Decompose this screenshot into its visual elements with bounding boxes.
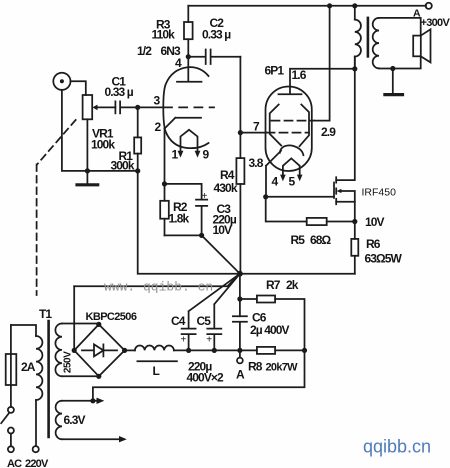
svg-text:KBPC2506: KBPC2506 (86, 311, 137, 323)
node star ground (237, 271, 243, 277)
svg-text:AC: AC (7, 458, 22, 468)
tube V2 6P1 envelope (266, 86, 312, 171)
node C5 (212, 348, 217, 353)
wire ground drop to star (138, 171, 240, 274)
resistor R2 (160, 184, 201, 236)
switch S1 (1, 407, 14, 452)
transformer T2 primary (355, 6, 361, 69)
svg-text:220V: 220V (25, 458, 49, 468)
node bridge top (96, 322, 101, 327)
svg-text:3.8: 3.8 (249, 156, 264, 170)
resistor R4 (236, 57, 244, 274)
tube V1 heater pins 1 9 (178, 130, 201, 158)
node VR1 ground (85, 168, 90, 173)
svg-text:0.33 µ: 0.33 µ (105, 85, 134, 99)
node 6P1 cathode junction (263, 194, 268, 199)
node screen rail top (327, 3, 332, 8)
terminal A bottom (237, 350, 243, 363)
tube V1 6N3 envelope (163, 67, 208, 148)
node bridge left (72, 348, 77, 353)
node bridge right (122, 348, 127, 353)
svg-text:www. qqibb. cn: www. qqibb. cn (104, 280, 213, 295)
label C6 value (250, 311, 290, 338)
tube V2 grid pin 7 dashed (240, 132, 266, 134)
svg-text:400V×2: 400V×2 (187, 371, 225, 385)
svg-text:A: A (236, 368, 245, 382)
label R2 value (169, 200, 190, 226)
resistor R1 (134, 107, 141, 170)
wire R6 bottom to star (240, 273, 355, 275)
wire bridge left up (73, 286, 75, 350)
node 6.3V top (90, 398, 95, 403)
capacitor C1 (115, 101, 137, 113)
wire star to C6 (239, 274, 241, 317)
rectifier bridge KBPC2506 (74, 324, 124, 376)
tube V2 plate pin 1.6 (279, 69, 355, 94)
label C1 value (105, 75, 134, 100)
transformer T1 primary 220V (11, 325, 43, 446)
node grid 6P1 (238, 130, 243, 135)
svg-text:2k: 2k (286, 278, 299, 292)
label R6 value (365, 237, 403, 266)
fuse F1 2A (6, 325, 17, 407)
svg-text:R6: R6 (366, 237, 381, 251)
svg-text:C5: C5 (197, 314, 212, 328)
svg-text:R8: R8 (248, 360, 263, 374)
svg-text:68Ω: 68Ω (310, 233, 332, 247)
svg-text:110k: 110k (152, 28, 176, 42)
label R3 value (152, 18, 176, 42)
label C3 value (213, 202, 237, 237)
svg-text:+: + (202, 191, 208, 202)
svg-text:10V: 10V (213, 223, 233, 237)
svg-text:63Ω5W: 63Ω5W (365, 252, 403, 266)
wire top B+ rail (188, 5, 426, 7)
label C2 value (202, 16, 231, 42)
node grid junction (135, 105, 140, 110)
terminal 220V (33, 446, 39, 452)
transformer T1 core (47, 321, 50, 437)
tube V2 cathode lead 3.8 (266, 151, 281, 197)
label AC 220V (7, 458, 49, 468)
resistor R6 (351, 222, 358, 274)
resistor R8 (240, 347, 305, 354)
potentiometer VR1 (83, 95, 116, 171)
svg-text:T1: T1 (39, 307, 52, 321)
tube V2 cathode (280, 145, 304, 155)
transformer T1 secondary 6.3V (56, 398, 127, 443)
resistor R5 (266, 197, 355, 225)
node speaker ground (390, 66, 395, 71)
svg-text:0.33 µ: 0.33 µ (202, 28, 231, 42)
label R4 value (214, 168, 238, 195)
resistor R3 (184, 6, 193, 57)
node R8 right (302, 348, 307, 353)
transformer T2 core (367, 18, 370, 57)
transformer T1 secondary 250V (55, 324, 98, 377)
ground speaker (385, 69, 403, 95)
svg-text:R4: R4 (220, 168, 235, 182)
node C4 (186, 348, 191, 353)
label 1/2 6N3 (137, 44, 182, 70)
capacitor C2 (188, 50, 240, 65)
svg-text:6P1: 6P1 (265, 64, 285, 78)
tube V2 screen pin 2.9 dashed (272, 120, 315, 122)
svg-text:2A: 2A (21, 360, 36, 374)
svg-text:2µ 400V: 2µ 400V (250, 323, 290, 337)
svg-text:100k: 100k (91, 138, 115, 152)
capacitor C5 (207, 274, 240, 351)
label R1 value (111, 149, 135, 173)
svg-text:R5: R5 (291, 233, 306, 247)
node C6 plus300 (237, 348, 242, 353)
tube V1 plate (177, 57, 202, 82)
svg-text:430k: 430k (214, 181, 238, 195)
svg-text:250V: 250V (63, 351, 74, 373)
terminal A +300V (426, 3, 432, 9)
node cathode junction (162, 181, 167, 186)
label R8 value (248, 360, 298, 374)
svg-text:+: + (206, 335, 212, 346)
tube V2 beam plates (270, 105, 309, 147)
inductor L (125, 346, 240, 362)
svg-text:+: + (181, 335, 187, 346)
svg-text:qqibb.cn: qqibb.cn (363, 437, 431, 457)
transistor Q1 IRF450 (266, 57, 355, 222)
svg-text:6.3V: 6.3V (64, 413, 86, 427)
svg-text:1.6: 1.6 (292, 68, 307, 82)
wire bridge minus to star (74, 274, 240, 287)
node plate junction 6N3 (186, 54, 191, 59)
svg-text:10V: 10V (365, 215, 385, 229)
svg-text:C4: C4 (171, 314, 186, 328)
wire C3 to star (202, 235, 240, 273)
resistor R7 (240, 296, 305, 351)
node R2 C3 bottom (199, 233, 204, 238)
tube V1 grid pin3 dashed (138, 106, 162, 108)
transformer T2 secondary (373, 18, 421, 69)
label C4 C5 value (187, 360, 225, 385)
svg-text:L: L (153, 364, 160, 378)
svg-text:R7: R7 (266, 278, 281, 292)
node T2 primary top (352, 3, 357, 8)
node R7 junction (237, 296, 242, 301)
tube V1 cathode pin2 (165, 118, 202, 184)
svg-text:1.8k: 1.8k (169, 212, 190, 226)
wire chassis dashed (37, 120, 76, 295)
node source 10V (352, 219, 357, 224)
svg-text:+300V: +300V (421, 17, 450, 29)
label R7 value (266, 278, 299, 292)
capacitor C4 (182, 274, 240, 351)
speaker LS (413, 29, 430, 62)
wire heater elevation (93, 350, 305, 400)
svg-text:1/2: 1/2 (137, 44, 152, 58)
svg-text:20k7W: 20k7W (266, 362, 299, 374)
label VR1 value (91, 127, 115, 152)
input jack J1 (53, 73, 86, 95)
node bridge bottom (96, 374, 101, 379)
node plate drain junction (352, 66, 357, 71)
tube V2 heater pins 4 5 (280, 158, 302, 181)
svg-text:IRF450: IRF450 (362, 187, 397, 199)
capacitor C6 (233, 316, 247, 350)
ground chassis (77, 171, 98, 185)
node R1 ground (135, 168, 140, 173)
svg-text:2.9: 2.9 (321, 125, 336, 139)
capacitor C3 (165, 184, 208, 236)
label R5 value (291, 233, 332, 247)
wire ground bus left (62, 90, 138, 171)
